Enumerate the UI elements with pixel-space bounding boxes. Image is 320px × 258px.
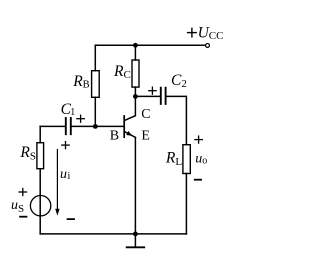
polarity - of uo xyxy=(195,179,201,181)
transistor Q1 collector lead xyxy=(125,96,136,120)
node RB-base junction xyxy=(93,124,98,129)
resistor RB xyxy=(92,71,100,98)
svg-text:B: B xyxy=(110,128,119,143)
wire top rail xyxy=(95,44,205,46)
svg-text:E: E xyxy=(141,128,150,143)
transistor Q1 base bar xyxy=(123,116,125,137)
wire collector node to C2 xyxy=(135,95,160,97)
polarity - of ui xyxy=(68,218,74,220)
polarity + of uS xyxy=(19,189,26,196)
resistor RC xyxy=(132,60,139,87)
polarity + of uo xyxy=(195,136,202,143)
capacitor C2 xyxy=(161,88,166,104)
capacitor C1 xyxy=(66,118,71,134)
wire RS to source and bottom xyxy=(39,169,41,234)
svg-text:C: C xyxy=(141,107,150,122)
polarity - of uS xyxy=(20,216,26,218)
wire RL bottom xyxy=(185,174,187,234)
resistor RL xyxy=(183,145,190,174)
wire C1 to base xyxy=(72,125,125,127)
polarity + of C1 xyxy=(77,115,84,122)
wire left branch down xyxy=(39,126,41,142)
node RC top xyxy=(133,43,138,48)
transistor Q1 emitter arrow xyxy=(126,131,132,136)
voltage source uS xyxy=(30,196,50,216)
wire emitter down xyxy=(134,137,136,234)
wire RB riser top xyxy=(94,45,96,70)
wire bottom rail xyxy=(40,233,186,235)
transistor Q1 emitter lead xyxy=(125,132,136,138)
polarity + of C2 xyxy=(149,87,156,94)
wire C2 to RL corner xyxy=(167,96,187,144)
terminal +UCC xyxy=(206,43,210,47)
node emitter-ground junction xyxy=(133,232,138,237)
wire RC riser top xyxy=(134,45,136,60)
ground xyxy=(127,234,145,247)
node collector junction xyxy=(133,94,138,99)
wire RC bottom xyxy=(134,87,136,96)
resistor RS xyxy=(37,143,44,169)
plus of +UCC xyxy=(188,28,197,37)
arrow ui xyxy=(55,150,59,216)
wire RB bottom xyxy=(94,97,96,126)
wire input to C1 xyxy=(40,125,65,127)
polarity + of ui xyxy=(62,142,69,149)
